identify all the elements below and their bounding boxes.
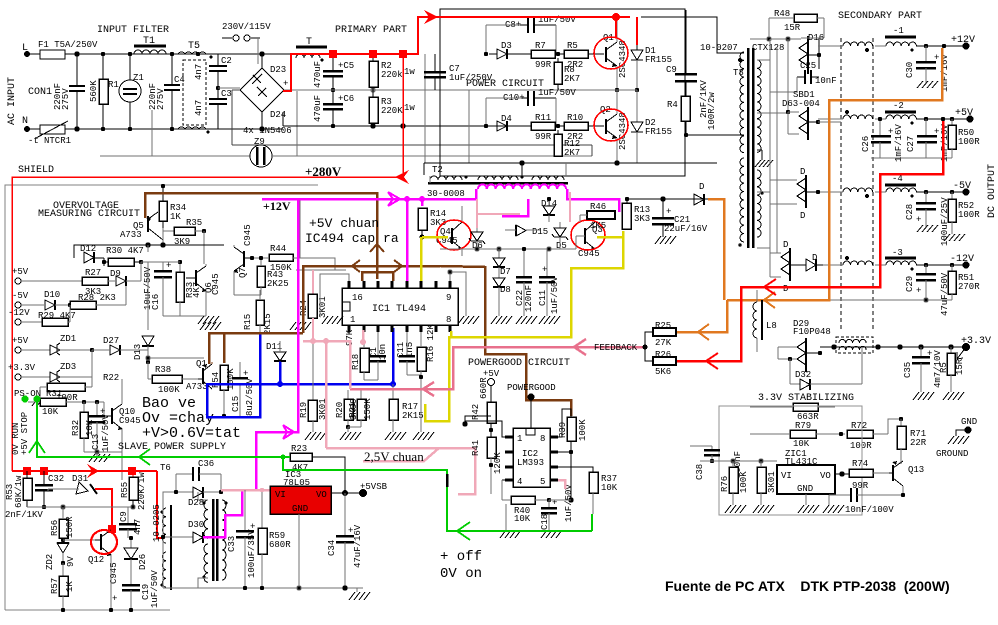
svg-text:+5V STOP: +5V STOP [20, 412, 30, 455]
yellow wire Q3 path [425, 231, 623, 421]
svg-text:C30: C30 [905, 62, 915, 78]
winding T6 primary left [161, 505, 172, 590]
svg-text:VI: VI [781, 471, 792, 481]
transistor Q12 C945 [88, 530, 119, 612]
svg-text:68K/1w: 68K/1w [14, 475, 24, 508]
svg-text:+: + [283, 79, 288, 89]
svg-text:+C6: +C6 [338, 94, 354, 104]
inductor L8 [753, 290, 777, 352]
svg-text:10nF/100V: 10nF/100V [845, 505, 894, 515]
svg-text:NTCR1: NTCR1 [44, 136, 71, 146]
ground C18 [541, 530, 562, 538]
svg-text:99R: 99R [535, 132, 552, 142]
node N [22, 116, 30, 132]
svg-text:R19: R19 [299, 402, 309, 418]
svg-text:120K: 120K [493, 452, 503, 474]
svg-text:150K: 150K [363, 398, 373, 420]
capacitor C7 1uF/250V [424, 54, 493, 90]
node L [22, 43, 30, 57]
capacitor 10nF/100V [829, 488, 905, 515]
svg-text:N: N [22, 116, 28, 127]
svg-text:R27: R27 [85, 268, 101, 278]
terminal -5V r2 [12, 291, 44, 308]
svg-text:275V: 275V [61, 88, 71, 110]
wire T3 secondary taps [739, 60, 791, 248]
IC ZIC1 TL431C [777, 449, 835, 494]
svg-text:C38: C38 [695, 464, 705, 480]
svg-text:Z1: Z1 [133, 73, 144, 83]
resistor R52 100R [948, 192, 980, 234]
svg-text:FEEDBACK: FEEDBACK [594, 343, 638, 353]
svg-text:R35: R35 [186, 218, 202, 228]
svg-text:1uF/50V: 1uF/50V [550, 276, 560, 314]
capacitor C11b 1uF/50V [538, 249, 560, 316]
svg-text:R41: R41 [471, 440, 481, 456]
resistor R72 100R [847, 417, 903, 451]
transformer T3 main [733, 48, 761, 248]
wire R39 down C18 [549, 452, 573, 502]
svg-text:30-0008: 30-0008 [427, 189, 465, 199]
svg-text:15R: 15R [955, 358, 965, 375]
transistor Q3 C945 [576, 222, 603, 259]
svg-text:1mF/16V: 1mF/16V [894, 124, 904, 162]
svg-text:1w: 1w [404, 103, 415, 113]
svg-text:470uF: 470uF [313, 61, 323, 88]
svg-text:+: + [934, 53, 939, 63]
svg-text:100R: 100R [958, 210, 980, 220]
resistor R23 4K7 [290, 444, 312, 473]
zener ZD2 9V [45, 543, 76, 570]
diode D12 [80, 244, 106, 266]
gray box 3v3 [719, 406, 862, 515]
brown arrow up [370, 244, 384, 252]
capacitor C33 100uF/35V [227, 490, 257, 590]
resistor R7 99R [531, 41, 564, 70]
brown arrow left [352, 260, 360, 272]
wire zic1 top rail [700, 459, 777, 463]
capacitor C15 [231, 362, 255, 416]
svg-text:16: 16 [352, 293, 363, 303]
svg-text:4K7: 4K7 [292, 463, 308, 473]
svg-text:275V: 275V [156, 88, 166, 110]
svg-text:+3.3V: +3.3V [961, 336, 991, 347]
resistor R30 4K7 [104, 246, 148, 266]
svg-text:AC INPUT: AC INPUT [7, 77, 18, 125]
transistor Q2 2SC4348 [598, 90, 628, 163]
svg-text:+: + [542, 265, 547, 275]
svg-text:4x 1N5406: 4x 1N5406 [243, 126, 292, 136]
svg-text:150R: 150R [65, 516, 75, 538]
resistor R76 100K [720, 461, 749, 505]
svg-text:T6: T6 [160, 463, 171, 473]
diode D single -12V [790, 253, 823, 271]
magenta wire D30 [203, 490, 242, 537]
svg-text:FR155: FR155 [645, 55, 672, 65]
svg-text:2K15: 2K15 [402, 411, 424, 421]
wire shield rail [100, 155, 592, 157]
svg-text:-12V: -12V [8, 308, 30, 318]
wire overvoltage inner box [74, 243, 224, 258]
red circle Q1 [594, 37, 628, 69]
wire secondary left rails [750, 37, 801, 277]
label +3.3V [957, 336, 991, 359]
svg-text:R22: R22 [103, 373, 119, 383]
svg-text:C9: C9 [119, 511, 129, 522]
bridge rectifier D23 D24 4x1N5406 [240, 52, 292, 136]
svg-text:Q1: Q1 [196, 359, 207, 369]
svg-text:+: + [927, 349, 932, 359]
svg-text:R30 4K7: R30 4K7 [106, 246, 144, 256]
capacitor C18 1uF/50V [540, 484, 574, 530]
wire bl mid rail [27, 505, 135, 509]
resistor R35 3K9 [163, 218, 206, 264]
ground C28 [917, 225, 938, 232]
svg-text:C945: C945 [243, 224, 253, 246]
capacitor C13 1uF/50V [89, 402, 111, 452]
svg-text:D32: D32 [795, 370, 811, 380]
svg-text:99R: 99R [852, 481, 869, 491]
svg-text:+280V: +280V [305, 164, 342, 179]
zener ZD1 [50, 334, 94, 355]
ground 10nF [823, 505, 844, 513]
resistor R56 150R [50, 507, 75, 542]
resistor R17 2K15 [389, 384, 424, 432]
svg-text:D26: D26 [138, 554, 148, 570]
resistor R42 660R [471, 377, 496, 437]
pink wire 2.5V net [303, 330, 475, 494]
green arrow left2 [457, 522, 470, 540]
resistor R18 97K [345, 329, 378, 380]
resistor R14 3K3 [418, 208, 446, 240]
svg-text:+3.3V: +3.3V [8, 363, 36, 373]
capacitor C27 1mF/16V [906, 119, 950, 162]
capacitor C5 470uF [313, 54, 354, 90]
capacitor C38 100nF [690, 446, 743, 480]
wire R23 to IC3 [312, 457, 345, 493]
resistor R48 15R [769, 9, 824, 39]
svg-text:+: + [916, 286, 921, 296]
svg-text:+ off: + off [440, 549, 482, 565]
svg-text:LM393: LM393 [517, 458, 544, 468]
diode D28 [174, 487, 223, 508]
wire Q5 node [161, 228, 165, 247]
svg-text:POWERGOOD: POWERGOOD [507, 383, 556, 393]
wire rail 249 [440, 236, 576, 251]
svg-text:R38: R38 [155, 365, 171, 375]
resistor R46 1K5 [580, 202, 615, 231]
svg-text:D: D [800, 167, 805, 177]
svg-text:D30: D30 [188, 520, 204, 530]
wire rail 199 east [626, 197, 708, 201]
resistor R24 3K01 [299, 270, 328, 341]
ground IC2 left [500, 504, 521, 538]
wire sec cross verticals [818, 46, 841, 300]
wire IC3 gnd drop [297, 514, 301, 590]
svg-text:IC1 TL494: IC1 TL494 [372, 304, 426, 315]
wire black overlay on green [446, 474, 449, 487]
svg-text:POWERGOOD CIRCUIT: POWERGOOD CIRCUIT [468, 358, 570, 369]
dashed coil box 3.3V [836, 337, 873, 353]
svg-text:9V: 9V [66, 556, 76, 567]
ground R19 [305, 432, 326, 440]
green arrow left1 [139, 449, 150, 465]
svg-text:R76: R76 [720, 476, 730, 492]
svg-text:1: 1 [517, 434, 522, 444]
terminal +5V powergood [483, 369, 500, 400]
svg-text:SHIELD: SHIELD [18, 165, 54, 176]
svg-text:D24: D24 [270, 110, 286, 120]
capacitor C9 2nF/1KV [666, 10, 709, 118]
IC1 pin16 wire + ground [320, 274, 349, 316]
output coil -3 [875, 248, 916, 271]
magenta arrow branch [283, 425, 294, 439]
orange arrow 1 [764, 292, 775, 308]
yellow wire Q4 [421, 237, 448, 281]
svg-text:+: + [888, 127, 893, 137]
svg-text:R55: R55 [120, 482, 130, 498]
svg-text:Q13: Q13 [908, 465, 924, 475]
svg-text:15R: 15R [784, 23, 801, 33]
svg-text:8: 8 [540, 434, 545, 444]
svg-text:C35: C35 [903, 362, 913, 378]
svg-text:C33: C33 [227, 536, 237, 552]
diode D11 [266, 341, 286, 362]
magenta wire +12V [256, 189, 619, 490]
red circle Q3 [571, 220, 605, 250]
svg-text:IC494 cap ra: IC494 cap ra [305, 231, 399, 246]
svg-text:1uF/50V: 1uF/50V [564, 484, 574, 522]
resistor R31 10K [28, 389, 104, 417]
resistor R1 560K [89, 52, 119, 131]
red arrow sec2 [706, 353, 718, 369]
svg-text:FR155: FR155 [645, 127, 672, 137]
svg-text:9: 9 [446, 293, 451, 303]
magenta dots [404, 196, 425, 202]
svg-text:C26: C26 [861, 136, 871, 152]
red arrow bottom [87, 464, 99, 478]
diode D10 [44, 290, 72, 310]
blue dot pin4 [390, 381, 396, 387]
resistor R71 22R [897, 419, 927, 464]
IC1 TL494 [342, 288, 458, 325]
pink dots [310, 338, 366, 345]
diode D4 [489, 114, 531, 131]
blue note text [142, 395, 241, 442]
svg-text:SECONDARY PART: SECONDARY PART [838, 11, 922, 22]
svg-text:Q7: Q7 [238, 267, 248, 278]
svg-text:560K: 560K [89, 80, 99, 102]
svg-text:R32: R32 [71, 420, 81, 436]
svg-text:+5V: +5V [955, 108, 973, 119]
capacitor C32 2nF/1KV [5, 471, 64, 520]
svg-text:R15: R15 [243, 314, 253, 330]
svg-text:8: 8 [446, 315, 451, 325]
wire T2 top rail [424, 161, 717, 165]
zener ZD3 [50, 350, 92, 382]
ground C30 [917, 81, 938, 88]
svg-text:GND: GND [961, 417, 977, 427]
schottky D29 F10P048 [778, 319, 831, 372]
svg-text:1: 1 [350, 315, 355, 325]
resistor R4 100R/2W [667, 92, 744, 138]
svg-text:R7: R7 [535, 41, 546, 51]
IC1 top pins [349, 281, 450, 288]
orange arrow 2 [698, 324, 709, 340]
orange wire +12V feed [677, 48, 942, 332]
svg-text:+5V: +5V [12, 336, 29, 346]
wire T6 left [163, 492, 363, 588]
svg-text:C18: C18 [540, 514, 550, 530]
transformer T2 drive [424, 163, 568, 183]
svg-text:1uF/50V: 1uF/50V [150, 570, 160, 608]
ground C21 [655, 236, 676, 244]
svg-text:R21: R21 [348, 402, 358, 418]
diode D9 [110, 262, 141, 286]
svg-text:CON1: CON1 [28, 87, 52, 98]
resistor R59 680R [258, 488, 291, 590]
svg-text:D15: D15 [532, 227, 548, 237]
capacitor C26 1mF/16V [861, 117, 904, 162]
capacitor C11 1n5 [396, 332, 421, 375]
svg-text:C9: C9 [666, 65, 677, 75]
svg-text:270R: 270R [958, 282, 980, 292]
ground C11b [539, 316, 560, 324]
svg-text:5: 5 [540, 477, 545, 487]
diode D7 [493, 249, 511, 278]
ground R17 [385, 432, 406, 440]
+12V terminal [916, 35, 975, 50]
svg-text:2K7: 2K7 [564, 148, 580, 158]
red wire +280V [12, 54, 403, 471]
resistor R2 220k 1w [369, 54, 415, 90]
svg-text:R74: R74 [852, 459, 868, 469]
svg-text:+C5: +C5 [338, 61, 354, 71]
svg-text:C28: C28 [905, 204, 915, 220]
resistor R44 150K [250, 244, 335, 273]
capacitor C28 100uF/25V [905, 192, 950, 246]
pink wire T2 right [477, 192, 570, 228]
brown arrow right [394, 260, 402, 272]
svg-text:C34: C34 [327, 540, 337, 556]
resistor R53 68K/1w [5, 471, 32, 508]
svg-text:R5: R5 [567, 41, 578, 51]
svg-text:R5: R5 [939, 362, 949, 373]
red node dots bottom [23, 467, 136, 533]
capacitor C4 220nF/275V [148, 52, 185, 131]
diode D15 [505, 225, 548, 237]
svg-text:C945: C945 [211, 273, 221, 295]
gray border box [5, 185, 318, 610]
resistor R5b 15R [939, 347, 965, 392]
capacitor C29 47uF/50V [905, 265, 950, 316]
resistor 663R [750, 403, 835, 422]
resistor R37 10K [589, 472, 618, 514]
capacitor C 220nF/275V [69, 52, 85, 131]
svg-text:-t: -t [28, 136, 39, 146]
svg-text:-5V: -5V [953, 181, 971, 192]
svg-text:4n7: 4n7 [133, 519, 143, 535]
svg-text:D7: D7 [500, 267, 511, 277]
red circle Q2 [594, 109, 628, 141]
svg-text:Fuente de PC ATX DTK PTP-20: Fuente de PC ATX DTK PTP-2038 (200W) [665, 578, 950, 594]
wire T3 primary top [641, 17, 744, 62]
resistor R21 150K [348, 390, 373, 432]
svg-text:R10: R10 [567, 113, 583, 123]
svg-text:3K01: 3K01 [767, 471, 777, 493]
svg-text:+: + [916, 215, 921, 225]
svg-text:D28: D28 [188, 498, 204, 508]
svg-text:ZD2: ZD2 [45, 554, 55, 570]
label + off / 0V on [440, 549, 482, 582]
resistor R40 10K [502, 480, 551, 524]
switch 230V/115V [222, 22, 271, 64]
svg-text:27K: 27K [655, 338, 672, 348]
svg-text:F10P048: F10P048 [793, 327, 831, 337]
ground row mid2 [290, 322, 311, 330]
resistor R10 2R2 [564, 113, 604, 142]
svg-text:C25: C25 [800, 61, 816, 71]
output coil -2 [875, 101, 916, 125]
svg-text:100K: 100K [739, 471, 749, 493]
svg-text:+: + [666, 207, 671, 217]
wire shield drop [151, 110, 153, 156]
svg-text:T2: T2 [432, 165, 443, 175]
label IC3 78L05 [283, 470, 310, 488]
resistor R38 100K [146, 360, 198, 395]
power circuit box [440, 9, 685, 176]
svg-text:10-0205: 10-0205 [152, 504, 162, 542]
capacitor C25 10nF [770, 61, 837, 92]
svg-text:2,5V chuan: 2,5V chuan [364, 449, 424, 464]
svg-text:680R: 680R [269, 540, 291, 550]
svg-text:C27: C27 [906, 136, 916, 152]
svg-text:220k: 220k [381, 70, 403, 80]
capacitor C3 [209, 86, 240, 129]
svg-text:MEASURING CIRCUIT: MEASURING CIRCUIT [38, 209, 140, 220]
svg-text:120nF: 120nF [524, 285, 534, 312]
svg-text:INPUT FILTER: INPUT FILTER [97, 25, 169, 36]
svg-text:+V>0.6V=tat: +V>0.6V=tat [142, 425, 241, 442]
svg-text:220K/1w: 220K/1w [137, 472, 147, 510]
diode D27 [92, 336, 148, 355]
transistor Q4 C945 [436, 206, 463, 256]
+5V terminal [916, 108, 974, 123]
resistor R22 100R [40, 373, 119, 403]
svg-text:D27: D27 [103, 336, 119, 346]
capacitor C1 10n [369, 332, 388, 380]
svg-text:D: D [783, 240, 788, 250]
svg-text:-4: -4 [892, 174, 903, 184]
inductor T1 [134, 36, 166, 54]
svg-text:1K5: 1K5 [590, 221, 606, 231]
svg-text:3K3: 3K3 [634, 214, 650, 224]
wire bottom primary rail [283, 112, 600, 128]
transistor Q1 A733 left [186, 359, 212, 392]
diode D3 [489, 41, 531, 59]
svg-text:-2: -2 [893, 101, 904, 111]
varistor Z9 [250, 91, 297, 167]
transistor Q5 A733 [120, 212, 163, 240]
svg-text:100R: 100R [958, 137, 980, 147]
label GND terminal [956, 417, 977, 436]
resistor R19 3K01 [299, 341, 328, 432]
svg-text:230V/115V: 230V/115V [222, 22, 271, 32]
svg-text:VO: VO [316, 490, 327, 500]
resistor R43 2K25 [257, 256, 289, 295]
wire Q5 D13 junction [146, 356, 204, 360]
red wire secondary feedback [676, 121, 943, 361]
pink wire VI [221, 489, 270, 492]
